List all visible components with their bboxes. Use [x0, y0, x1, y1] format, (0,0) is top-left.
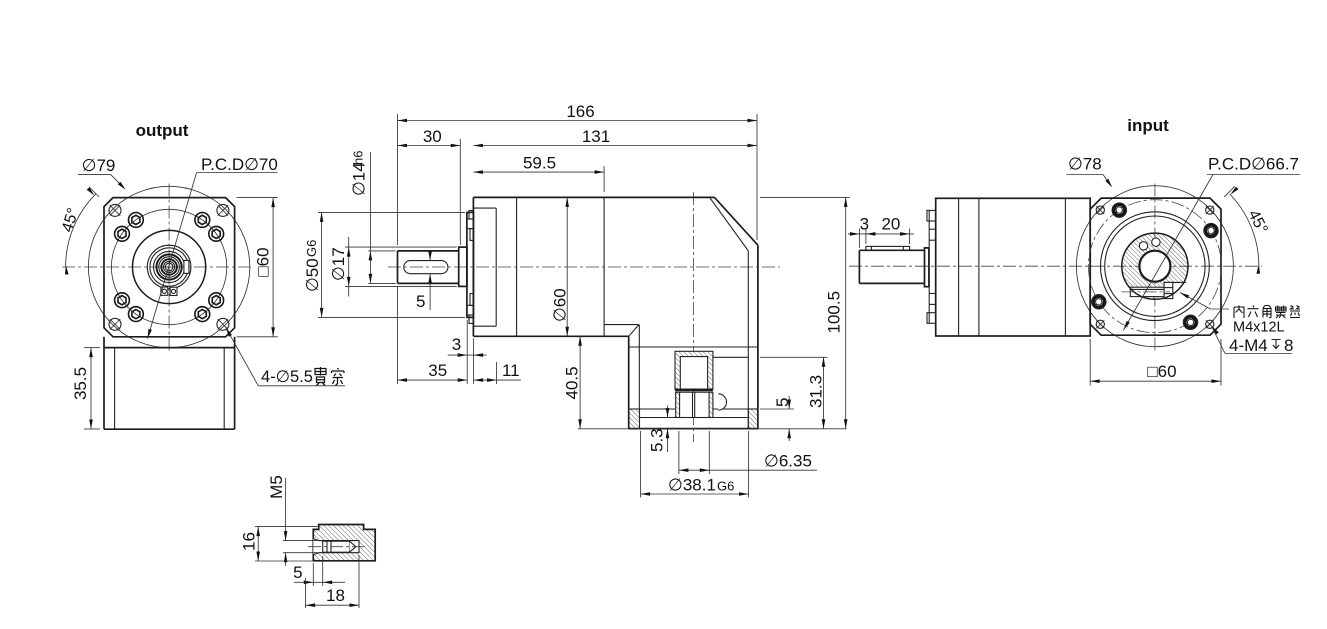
input clamp screw head [1164, 282, 1173, 298]
svg-text:8: 8 [1284, 336, 1293, 355]
dimension 5 detail [312, 563, 314, 586]
bottom recess floor line [640, 417, 748, 419]
left foot hatched [629, 409, 640, 429]
dimension 59.5 [603, 166, 605, 192]
svg-text:4-M4: 4-M4 [1229, 336, 1268, 355]
svg-text:20: 20 [881, 215, 900, 234]
middle flange front face [472, 197, 474, 336]
middle output shaft dia14 [398, 250, 459, 252]
svg-text:5: 5 [416, 292, 425, 311]
dimension square60 input [1089, 339, 1091, 386]
svg-text:□60: □60 [1147, 362, 1176, 381]
label 4-dia5.5 through holes with leader [226, 328, 258, 386]
input shaft collar [925, 248, 929, 287]
dimension 35 [397, 286, 399, 384]
input hub small hole 1 [1139, 242, 1147, 250]
input corner tapped holes 4x with cross [1096, 206, 1104, 214]
dimension dia60 body [566, 197, 568, 336]
head chamfer outer [715, 197, 758, 245]
dimension 45deg input [1230, 194, 1259, 266]
output shaft ring r5.6 [164, 261, 175, 272]
detail block section with hatch [313, 525, 375, 561]
svg-text:∅38.1: ∅38.1 [668, 475, 716, 494]
svg-text:30: 30 [423, 127, 442, 146]
dimension 5 plate [760, 408, 794, 410]
middle view plug vertical centerline [693, 192, 695, 442]
input shaft [859, 249, 924, 251]
svg-text:100.5: 100.5 [825, 291, 844, 334]
middle body top edge [473, 196, 714, 198]
input flange circumscribed circle dia 78 [1076, 186, 1233, 347]
detail centerline [308, 546, 364, 548]
output clamp tab left with hole [161, 287, 168, 295]
middle 59.5 boundary line [603, 197, 605, 336]
input 4x M4 socket screws [1204, 223, 1218, 237]
input body section lines [958, 198, 960, 336]
head inner right fold line [747, 251, 749, 429]
bottom face extension line long [578, 428, 847, 430]
dimension 18 detail [305, 578, 307, 608]
output flange circumscribed circle dia 79 [88, 186, 249, 347]
output shaft bore thick ring [161, 259, 177, 275]
input clamp hub outline [1122, 233, 1188, 299]
45deg radial extension input [1224, 186, 1235, 197]
svg-text:G6: G6 [717, 478, 734, 493]
input square flange 60x60 chamfered [1090, 198, 1221, 335]
output flange bottom band line [104, 347, 235, 349]
step fold lines bottom-left of head [604, 324, 639, 326]
svg-text:5.3: 5.3 [648, 428, 667, 452]
clamp plug lower body sectioned [676, 392, 713, 417]
svg-text:□60: □60 [254, 247, 273, 276]
input hub clearance wedge [1164, 282, 1186, 298]
output body inner side lines [114, 348, 116, 430]
detail screw hole white [313, 539, 359, 555]
svg-text:∅79: ∅79 [82, 156, 116, 175]
dimension 35.5 output body [84, 347, 100, 349]
dimension dia50G6 pilot [318, 211, 465, 213]
dimension 5.3 recess [667, 406, 669, 418]
output body below flange - outer sides [103, 337, 105, 429]
svg-text:131: 131 [582, 127, 610, 146]
output clamp tab right with hole [170, 287, 177, 295]
dimension dia6.35 [678, 431, 680, 474]
head left edge [628, 336, 630, 428]
input body outline [936, 198, 1090, 336]
input bearing ring outer [1101, 212, 1210, 321]
svg-text:16: 16 [240, 532, 259, 551]
head chamfer inner fold [710, 197, 749, 250]
middle body bottom edge [473, 335, 628, 337]
head top face line [629, 346, 758, 348]
svg-text:M5: M5 [267, 475, 286, 499]
output keyway notch at 3 oclock [184, 260, 189, 273]
dimension dia38.1G6 [640, 431, 642, 498]
middle shaft keyway slot [404, 261, 448, 274]
output shaft center hole [165, 263, 173, 271]
dimension dia14h6 shaft [368, 250, 395, 252]
plunger ball [718, 394, 726, 410]
svg-text:166: 166 [566, 102, 594, 121]
svg-text:∅14: ∅14 [350, 162, 369, 196]
middle shaft shoulder dia17 [459, 247, 467, 286]
svg-text:input: input [1127, 116, 1169, 135]
input clamp slot [1130, 287, 1164, 296]
svg-text:∅78: ∅78 [1068, 155, 1102, 174]
input view vertical centerline [1154, 184, 1156, 353]
detail M5 set screw [323, 541, 350, 552]
output center ring r21.8 [147, 245, 191, 289]
middle pilot boss dia50 [467, 212, 474, 317]
middle view horizontal centerline [388, 266, 780, 268]
input bolt circle PCD66.7 dash-dot [1088, 200, 1221, 333]
svg-text:∅60: ∅60 [551, 288, 570, 322]
svg-text:∅17: ∅17 [329, 247, 348, 281]
right foot hatched [748, 409, 758, 429]
output view vertical centerline [168, 184, 170, 353]
svg-text:35: 35 [428, 361, 447, 380]
svg-text:5: 5 [773, 398, 792, 407]
middle housing section line [516, 197, 518, 336]
middle flange back lines [495, 208, 497, 326]
head inner horizontal line [713, 356, 748, 358]
svg-text:59.5: 59.5 [523, 154, 556, 173]
svg-text:31.3: 31.3 [807, 375, 826, 408]
svg-text:∅50: ∅50 [303, 258, 322, 292]
dimension 3 pilot thickness [466, 320, 468, 357]
dimension 31.3 [760, 356, 828, 358]
CJK text guan chuan (through) [315, 367, 344, 386]
svg-text:∅6.35: ∅6.35 [764, 452, 812, 471]
head bottom edge [629, 428, 758, 430]
output 8x hex socket screws on PCD70 [115, 226, 130, 241]
bolt circle PCD70 thin circle [111, 209, 226, 324]
svg-text:M4x12L: M4x12L [1233, 320, 1285, 336]
output body bottom edge [104, 428, 235, 430]
dimension 131 body length [473, 145, 757, 147]
svg-text:3: 3 [452, 335, 461, 354]
plug clamp thick line [675, 388, 713, 391]
output shaft ring r10.3 [159, 257, 180, 278]
dimension dia17 shoulder [345, 246, 457, 248]
svg-text:35.5: 35.5 [71, 367, 90, 400]
input pilot serrations [928, 210, 930, 323]
clamp plug upper body sectioned [675, 351, 713, 389]
dimension 166 overall length [397, 114, 399, 245]
svg-text:11: 11 [502, 361, 520, 380]
svg-text:G6: G6 [304, 240, 319, 257]
dimension square60 output [237, 197, 278, 199]
output shaft collar ring thick [157, 254, 182, 279]
svg-text:5: 5 [293, 563, 302, 582]
input bore [1139, 251, 1170, 282]
45deg radial extension line output [89, 187, 99, 197]
input hub small hole 2 [1152, 238, 1160, 246]
output center ring r15.6 [154, 251, 185, 282]
head right edge [757, 245, 759, 428]
output center ring r19.2 [150, 248, 188, 286]
svg-text:P.C.D∅70: P.C.D∅70 [201, 155, 278, 174]
pilot boss serration steps [469, 211, 473, 219]
svg-text:4-∅5.5: 4-∅5.5 [261, 368, 313, 386]
input bearing ring inner [1105, 216, 1205, 316]
dimension 16 detail [255, 526, 319, 528]
input long horizontal centerline [849, 265, 1262, 267]
input shaft top strip 20 long [866, 246, 910, 250]
dimension 11 flange thickness [473, 339, 475, 385]
label 4-M4 depth 8 with leader [1212, 326, 1219, 335]
label hex socket screw M4x12L with leader [1180, 293, 1211, 310]
svg-text:3: 3 [860, 215, 869, 234]
dimension 3 and 20 input shaft [858, 229, 860, 249]
dimension 45deg angular arc output [66, 194, 96, 267]
dimension 30 shaft length [459, 139, 461, 245]
output center ring dia 38.1 seat [133, 230, 206, 303]
clamp screw stem [692, 392, 694, 417]
input clamp hub hatched [1118, 229, 1192, 303]
svg-text:output: output [136, 121, 189, 140]
bottom plate top edge [629, 408, 675, 410]
output square flange 60x60 with chamfered corners [104, 198, 235, 337]
dimension 40.5 [579, 336, 581, 429]
dimension 5 keyway width [429, 250, 431, 261]
dimension 100.5 overall height [760, 196, 850, 198]
output center cross [164, 266, 175, 268]
output corner through-holes 4x dia5.5 with cross marks [109, 204, 121, 216]
svg-text:h6: h6 [351, 151, 366, 165]
output view horizontal centerline [62, 266, 253, 268]
slot centerline [1122, 291, 1171, 293]
svg-text:P.C.D∅66.7: P.C.D∅66.7 [1208, 155, 1299, 174]
svg-text:18: 18 [326, 586, 345, 605]
svg-text:40.5: 40.5 [563, 366, 582, 399]
